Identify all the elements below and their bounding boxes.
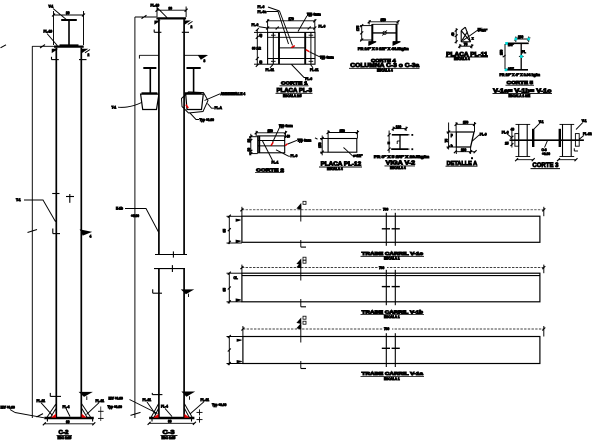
bracket level line left bbox=[139, 55, 159, 58]
svg-text:60: 60 bbox=[66, 420, 70, 424]
left dimension bbox=[315, 136, 328, 156]
weld note top right bbox=[298, 12, 321, 31]
splice at midspan bbox=[382, 213, 400, 246]
heavy left edge bbox=[258, 136, 260, 153]
left dimension bbox=[445, 123, 457, 150]
svg-text:ESCALA 4: ESCALA 4 bbox=[454, 57, 470, 61]
splice mark mid shaft bbox=[52, 194, 74, 203]
weld tick right unit bbox=[574, 148, 578, 151]
right hanging beam stub bbox=[185, 68, 202, 93]
svg-text:700: 700 bbox=[383, 207, 389, 211]
plate outline bbox=[268, 32, 315, 64]
svg-text:250: 250 bbox=[340, 129, 346, 133]
mid labels with leader bbox=[116, 207, 159, 234]
left dimension bbox=[387, 131, 390, 153]
svg-text:20: 20 bbox=[247, 139, 251, 143]
stiffeners left with red weld bbox=[151, 404, 159, 418]
svg-text:CORTE 2: CORTE 2 bbox=[256, 167, 284, 172]
svg-text:PL-1: PL-1 bbox=[272, 160, 279, 164]
svg-text:PL-3: PL-3 bbox=[502, 130, 509, 134]
clip marks above base bbox=[152, 392, 193, 400]
top dimension bbox=[156, 6, 188, 17]
svg-text:150: 150 bbox=[318, 142, 322, 148]
svg-text:TRABE CARRIL V-1b: TRABE CARRIL V-1b bbox=[362, 309, 424, 314]
svg-text:35: 35 bbox=[223, 288, 227, 292]
depth dimension left bbox=[223, 215, 242, 244]
svg-text:175: 175 bbox=[356, 25, 360, 31]
svg-text:ESC 1:25: ESC 1:25 bbox=[162, 436, 176, 440]
depth dimension left bbox=[227, 335, 243, 365]
svg-text:2: 2 bbox=[191, 25, 193, 29]
svg-text:PL-A: PL-A bbox=[215, 106, 223, 110]
weld marks below cap bbox=[155, 21, 193, 29]
svg-text:ESCALA 1:5: ESCALA 1:5 bbox=[283, 94, 302, 98]
svg-text:TRABE CARRIL V-1c: TRABE CARRIL V-1c bbox=[362, 251, 424, 256]
top dimension bbox=[255, 129, 290, 138]
base plate bbox=[149, 417, 194, 419]
top dimension line bbox=[241, 326, 545, 337]
svg-text:ESCALA 1: ESCALA 1 bbox=[384, 315, 400, 319]
bolt tick marks bbox=[271, 33, 313, 64]
top dimension row 1 bbox=[266, 17, 316, 22]
section cut B-B bbox=[297, 201, 306, 264]
svg-text:Typ +0.00: Typ +0.00 bbox=[212, 403, 227, 407]
svg-text:p: p bbox=[451, 133, 453, 137]
svg-text:+0.00: +0.00 bbox=[542, 152, 550, 156]
top dimension with cyan nodes bbox=[514, 35, 530, 42]
plate outline bbox=[258, 136, 285, 153]
svg-text:ESCALA 4: ESCALA 4 bbox=[390, 166, 406, 170]
svg-text:PL-9: PL-9 bbox=[319, 25, 326, 29]
svg-text:3: 3 bbox=[204, 59, 206, 63]
svg-text:ESCALA 1 S/E: ESCALA 1 S/E bbox=[509, 94, 531, 98]
left vertical dimension bbox=[247, 134, 258, 156]
bolt gauge verticals bbox=[273, 32, 311, 64]
label PL-1 bottom bbox=[263, 141, 279, 164]
section cut B-B bbox=[297, 260, 306, 323]
left dimension bbox=[451, 28, 458, 44]
svg-text:PR 14" X 8 1/2" X 44.3kg/m: PR 14" X 8 1/2" X 44.3kg/m bbox=[358, 47, 409, 51]
stiffeners left with red weld bbox=[47, 404, 56, 418]
right bracket trapezoid bbox=[186, 94, 204, 109]
anchor bolts below base bbox=[152, 418, 192, 422]
svg-text:PL-11: PL-11 bbox=[266, 68, 275, 72]
column flanges (heavy) bbox=[279, 32, 305, 64]
svg-text:ESCALA 4: ESCALA 4 bbox=[327, 167, 343, 171]
svg-text:150: 150 bbox=[463, 121, 469, 125]
base dimension bbox=[148, 420, 196, 425]
base dimension bbox=[43, 420, 96, 425]
label T-1 for bracket bbox=[112, 103, 142, 110]
top dimension bbox=[455, 121, 476, 132]
base labels bbox=[1, 399, 123, 421]
svg-text:NIV +0.00: NIV +0.00 bbox=[109, 397, 123, 401]
svg-text:PL-6a: PL-6a bbox=[258, 10, 267, 14]
inner bolt row lines bbox=[268, 37, 315, 58]
svg-text:PL-10: PL-10 bbox=[151, 4, 160, 8]
top dimension bbox=[327, 129, 359, 139]
svg-text:4: 4 bbox=[90, 235, 92, 239]
weld note right bbox=[288, 138, 312, 144]
svg-text:100: 100 bbox=[518, 35, 524, 39]
svg-text:PL-9: PL-9 bbox=[291, 154, 298, 158]
stiffeners right with red weld bbox=[82, 404, 91, 418]
svg-text:TRABE CARRIL V-1a: TRABE CARRIL V-1a bbox=[362, 371, 424, 376]
svg-text:150: 150 bbox=[268, 129, 274, 133]
beam outline bbox=[243, 337, 540, 364]
svg-text:30: 30 bbox=[66, 11, 70, 15]
svg-text:PL-11: PL-11 bbox=[310, 68, 319, 72]
I section bbox=[391, 134, 413, 150]
base plate bbox=[44, 417, 94, 419]
svg-text:90: 90 bbox=[247, 148, 251, 152]
splice at midspan bbox=[382, 333, 400, 367]
labels V-1 bbox=[534, 119, 587, 129]
svg-text:700: 700 bbox=[384, 327, 390, 331]
svg-text:T-1: T-1 bbox=[112, 105, 117, 109]
I-beam section bbox=[505, 42, 529, 71]
svg-text:x: x bbox=[472, 37, 474, 41]
anchor crosshair marks right bbox=[197, 409, 203, 422]
title VIGA V-2 bbox=[385, 161, 416, 170]
svg-text:60 1/2: 60 1/2 bbox=[252, 46, 261, 50]
plate rectangle bbox=[328, 139, 357, 153]
side labels PL-9 bbox=[252, 23, 326, 28]
title CORTE 5 bbox=[493, 80, 553, 98]
title C-2 bbox=[57, 430, 73, 440]
left bracket trapezoid bbox=[141, 94, 159, 109]
clip marks mid shaft bbox=[53, 229, 92, 239]
left horizontal dim to extension bbox=[135, 15, 157, 19]
svg-text:PL-10: PL-10 bbox=[44, 29, 53, 33]
title PLACA PL-12 bbox=[319, 162, 362, 172]
svg-text:60: 60 bbox=[168, 420, 172, 424]
inner lines bbox=[258, 141, 285, 146]
svg-text:130: 130 bbox=[396, 125, 402, 129]
svg-text:PR 10" X 4" X 8.94 kg/m: PR 10" X 4" X 8.94 kg/m bbox=[500, 73, 541, 77]
title CORTE 4 bbox=[349, 58, 420, 72]
title CORTE 1 bbox=[276, 81, 313, 98]
svg-text:PL-9: PL-9 bbox=[252, 23, 259, 27]
clip marks above base bbox=[50, 392, 91, 400]
svg-text:Typ +0.00: Typ +0.00 bbox=[200, 118, 215, 122]
svg-text:E DETALLE 4: E DETALLE 4 bbox=[225, 92, 245, 96]
left height dimension line bbox=[131, 17, 141, 418]
svg-text:E-1b: E-1b bbox=[116, 207, 123, 211]
label PL-10 bbox=[44, 29, 58, 45]
svg-text:CORTE 3: CORTE 3 bbox=[532, 162, 558, 169]
svg-text:40: 40 bbox=[286, 135, 290, 139]
svg-text:ESCALA 4: ESCALA 4 bbox=[377, 68, 393, 72]
revision cloud hexagon bbox=[182, 92, 209, 113]
svg-text:100: 100 bbox=[461, 148, 467, 152]
svg-text:V-1: V-1 bbox=[539, 120, 544, 124]
bracket level line right with weld bbox=[184, 55, 206, 63]
svg-text:PL-9: PL-9 bbox=[480, 133, 487, 137]
svg-text:PL-6: PL-6 bbox=[258, 5, 265, 9]
stiffeners right with red weld bbox=[184, 404, 192, 418]
label TRABE CARRIL V-1c bbox=[361, 251, 425, 261]
label V-1 bbox=[49, 5, 67, 20]
long diagonal leader with weld note bbox=[463, 28, 488, 40]
bottom dimension bbox=[458, 43, 473, 49]
depth dimension left bbox=[223, 272, 242, 304]
svg-text:PL-11: PL-11 bbox=[37, 399, 46, 403]
left hanging beam stub bbox=[142, 68, 158, 93]
left height dimension line bbox=[1, 45, 56, 418]
svg-text:2: 2 bbox=[88, 53, 90, 57]
bracket leaders right bbox=[190, 92, 239, 122]
beam center line bbox=[510, 139, 584, 141]
svg-text:PL-4: PL-4 bbox=[63, 405, 70, 409]
top dimension line bbox=[240, 207, 545, 216]
splice at midspan bbox=[382, 270, 400, 305]
svg-text:PL: PL bbox=[522, 50, 526, 54]
red weld ticks bbox=[291, 46, 309, 52]
svg-text:170: 170 bbox=[289, 17, 295, 21]
svg-text:PL-12: PL-12 bbox=[583, 132, 592, 136]
label TRABE CARRIL V-1a bbox=[361, 371, 425, 381]
svg-text:CL: CL bbox=[234, 276, 238, 280]
label PL-9 right bbox=[276, 150, 298, 158]
svg-text:PL-11: PL-11 bbox=[96, 399, 105, 403]
right column section bbox=[560, 124, 580, 156]
cap plate bbox=[54, 45, 84, 47]
svg-text:700: 700 bbox=[379, 266, 385, 270]
svg-text:40: 40 bbox=[259, 34, 263, 38]
section cut B-B bbox=[297, 321, 306, 368]
svg-text:PR 8" X 5 1/4" X 20.5kg/m: PR 8" X 5 1/4" X 20.5kg/m bbox=[374, 155, 429, 159]
svg-text:40: 40 bbox=[511, 127, 515, 131]
H section flanges bbox=[372, 24, 396, 41]
flange base welds bbox=[369, 42, 401, 46]
small labels near section bbox=[508, 43, 526, 71]
bottom dimension bbox=[454, 147, 477, 154]
svg-text:CORTE 1: CORTE 1 bbox=[281, 81, 308, 86]
svg-text:PL-4: PL-4 bbox=[161, 405, 168, 409]
thickness leader bbox=[472, 133, 487, 142]
svg-text:PL-11: PL-11 bbox=[201, 398, 210, 402]
title PLACA PL-11 bbox=[446, 52, 489, 61]
svg-text:40: 40 bbox=[451, 32, 455, 36]
shaft upper segment bbox=[159, 20, 184, 255]
svg-text:35: 35 bbox=[223, 229, 227, 233]
bottom dimensions bbox=[515, 158, 577, 161]
svg-text:+0.00: +0.00 bbox=[131, 214, 139, 218]
labels PL-6 / PL-6a with leaders bbox=[258, 5, 293, 46]
svg-text:Typ +0.00: Typ +0.00 bbox=[108, 405, 123, 409]
shaft lower segment bbox=[159, 269, 184, 418]
svg-text:V-1: V-1 bbox=[582, 119, 587, 123]
beam outline bbox=[242, 216, 540, 242]
top dimension bbox=[52, 11, 85, 45]
svg-text:75: 75 bbox=[464, 43, 468, 47]
svg-text:ESCALA 1: ESCALA 1 bbox=[384, 257, 400, 261]
svg-text:ESCALA 1: ESCALA 1 bbox=[384, 377, 400, 381]
svg-text:NIV +0.00: NIV +0.00 bbox=[1, 406, 15, 410]
top dimension row 2 bbox=[266, 19, 316, 32]
shaft break upper end bbox=[155, 251, 187, 257]
beam outline with doubled top flange bbox=[242, 273, 540, 302]
left NIV label two lines with long leader bbox=[109, 397, 158, 414]
clip angles below cap bbox=[154, 30, 189, 33]
label PL right bbox=[580, 132, 592, 139]
title CORTE 3 bbox=[531, 162, 561, 169]
beam stub V-1 on cap bbox=[60, 20, 79, 45]
svg-text:V-1: V-1 bbox=[49, 5, 54, 9]
clip marks below break bbox=[153, 289, 193, 297]
web weld tick bbox=[397, 141, 399, 144]
svg-text:3/8": 3/8" bbox=[508, 67, 514, 71]
left dimension bbox=[500, 44, 506, 69]
bottom labels bbox=[266, 65, 319, 82]
cap plate bbox=[156, 17, 186, 19]
left vertical dimension bbox=[252, 28, 268, 67]
title CORTE 2 bbox=[255, 167, 285, 172]
weld note right bbox=[310, 52, 334, 60]
plate triangle with cross bbox=[461, 27, 470, 42]
svg-text:b: b bbox=[451, 144, 453, 148]
weld note top bbox=[273, 124, 293, 142]
label PL-10 top bbox=[151, 4, 168, 18]
svg-text:e=1/2": e=1/2" bbox=[353, 154, 363, 158]
clip angles below cap bbox=[52, 57, 87, 60]
svg-text:75: 75 bbox=[445, 139, 449, 143]
web mid node bbox=[519, 55, 524, 58]
svg-text:CORTE 5: CORTE 5 bbox=[507, 80, 534, 85]
top dimension bbox=[368, 18, 400, 24]
svg-text:25: 25 bbox=[505, 142, 509, 146]
svg-text:1/4": 1/4" bbox=[508, 43, 514, 47]
svg-text:PL-11: PL-11 bbox=[143, 398, 152, 402]
left dimension bbox=[356, 24, 372, 41]
red weld ticks bbox=[271, 142, 288, 146]
svg-text:250: 250 bbox=[500, 49, 504, 55]
base labels bbox=[143, 398, 227, 417]
svg-text:ESC 1:25: ESC 1:25 bbox=[58, 436, 72, 440]
svg-text:30: 30 bbox=[169, 6, 173, 10]
label TRABE CARRIL V-1b bbox=[361, 309, 425, 319]
weld marks below cap bbox=[52, 49, 90, 57]
svg-text:350: 350 bbox=[381, 18, 387, 22]
title DETALLE A bbox=[446, 157, 478, 167]
svg-text:40: 40 bbox=[259, 60, 263, 64]
svg-text:T-1: T-1 bbox=[16, 198, 21, 202]
shaft flanges bbox=[55, 48, 57, 418]
left column section bbox=[515, 124, 533, 156]
label PL-8 with leader bbox=[16, 198, 56, 221]
thickness leader bbox=[344, 148, 364, 158]
left labels and dim bbox=[502, 127, 515, 147]
shaft break lower start bbox=[154, 265, 185, 272]
center label with leader bbox=[542, 141, 551, 157]
web bbox=[372, 30, 396, 35]
plate quad bbox=[456, 132, 474, 147]
anchor bolts below base bbox=[47, 418, 92, 422]
top dimension bbox=[392, 125, 408, 131]
title C-3 bbox=[161, 430, 178, 440]
top dimension line bbox=[240, 265, 545, 274]
